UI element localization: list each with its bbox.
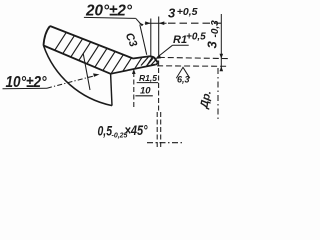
svg-text:C3: C3 — [123, 31, 139, 49]
svg-text:R1: R1 — [173, 34, 187, 46]
arrowhead of 10deg leader — [93, 73, 99, 77]
vertical face below corner — [111, 74, 112, 106]
svg-text:3: 3 — [205, 41, 220, 49]
dash-dot vertical axis right — [217, 68, 219, 119]
underline R1,5 — [137, 82, 159, 84]
vertical dimension line for 3-0.3 — [220, 14, 222, 71]
roughness mark 6.3 — [176, 67, 190, 78]
svg-text:-0,3: -0,3 — [210, 20, 221, 38]
20deg face extension line — [140, 25, 147, 55]
left arrow of 3+0.5 — [145, 21, 151, 25]
leader of 20deg label — [136, 18, 141, 24]
extension line B — [158, 17, 160, 57]
svg-text:+0,5: +0,5 — [186, 32, 206, 43]
right arrow of 3+0.5 — [159, 21, 165, 25]
svg-text:6,3: 6,3 — [177, 75, 190, 85]
bottom 10-degree face — [111, 65, 156, 74]
extension of 10 dimension with arrow — [133, 72, 135, 108]
dimension line 3+0.5 — [145, 22, 167, 24]
upper arrow of 3-0.3 — [220, 54, 224, 59]
bottom fillet R1.5 — [155, 62, 157, 64]
underline of 10deg label — [3, 87, 48, 90]
underline 10 — [135, 95, 152, 97]
svg-text:10: 10 — [140, 86, 151, 97]
chamfer C3 face at tip — [133, 56, 150, 58]
svg-text:R1,5: R1,5 — [139, 73, 157, 83]
bottom dash-dot axis — [147, 142, 182, 144]
svg-text:3: 3 — [168, 6, 176, 21]
arrowhead of 10 dimension — [132, 69, 136, 74]
shelf under R1+0.5 — [172, 44, 188, 46]
leader of 10deg label — [47, 75, 98, 88]
dashed vertical pair left — [156, 112, 158, 148]
arrowhead of R1+0.5 leader — [155, 55, 161, 59]
tip radius R1 and right face — [150, 56, 158, 62]
extra tip hatching strokes — [141, 57, 156, 66]
hatching of the band — [33, 24, 194, 84]
slab left edge — [44, 26, 51, 46]
tip lower extension dashed line — [157, 65, 229, 68]
extension line A — [150, 19, 152, 56]
svg-text:×45°: ×45° — [125, 123, 148, 138]
dashed vertical below tip — [158, 61, 160, 112]
svg-text:20°±2°: 20°±2° — [85, 2, 133, 19]
large flank arc — [44, 46, 113, 106]
slab bottom edge — [44, 46, 111, 74]
tip upper extension dashed line — [159, 57, 229, 58]
leader of R1+0.5 — [157, 45, 172, 57]
lower arrow of 3-0.3 — [220, 66, 224, 71]
angle dimension stroke — [83, 54, 90, 91]
underline of 20deg label — [84, 17, 136, 18]
arrowhead of 20deg leader — [139, 22, 144, 26]
svg-text:0,5: 0,5 — [98, 124, 113, 139]
svg-text:Др.: Др. — [198, 89, 214, 110]
dashed vertical pair right — [160, 112, 162, 148]
hatched band cross-section outline: top edge — [50, 26, 133, 59]
svg-text:+0,5: +0,5 — [177, 6, 198, 18]
